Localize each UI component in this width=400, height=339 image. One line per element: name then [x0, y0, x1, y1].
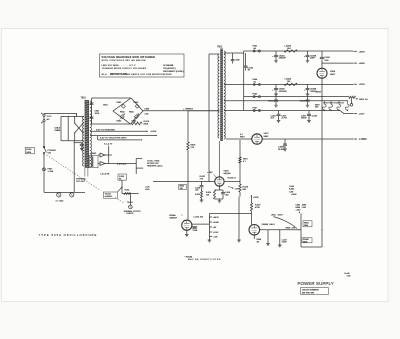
- svg-text:+17UF: +17UF: [281, 118, 288, 120]
- thermistor arrows: [120, 114, 126, 120]
- svg-text:# (2V-4V): # (2V-4V): [117, 163, 127, 165]
- input wires: [43, 112, 45, 115]
- unreg line: [143, 110, 219, 112]
- T601 primary winding: [83, 116, 84, 166]
- selector cross: [75, 123, 83, 132]
- svg-text:117V: 117V: [47, 116, 52, 118]
- svg-text:V634A: V634A: [169, 214, 176, 217]
- +500V line: [321, 63, 322, 64]
- heater fanout: [135, 159, 137, 175]
- AC input plug terminals: [43, 114, 45, 116]
- svg-text:+ 68V: + 68V: [207, 172, 213, 174]
- triad transformer box: [90, 156, 99, 168]
- T602 taps: [224, 52, 244, 54]
- svg-text:+ UNREG: + UNREG: [183, 108, 193, 110]
- unreg vertical bus: [187, 111, 189, 142]
- svg-text:4 7 UAC: 4 7 UAC: [56, 200, 64, 203]
- svg-text:WITH CONTROLS SET AS BELOW:: WITH CONTROLS SET AS BELOW:: [102, 59, 147, 62]
- L684 arc: [273, 217, 297, 229]
- pilot lamp: [129, 194, 131, 206]
- ladder top line: [209, 213, 251, 215]
- T601 secondary winding: [90, 101, 92, 167]
- svg-text:DATA: DATA: [26, 151, 31, 154]
- svg-text:6.3V TO V614 HTRS ONLY: 6.3V TO V614 HTRS ONLY: [100, 138, 127, 140]
- svg-text:560K: 560K: [303, 241, 308, 243]
- unreg to primary: [188, 110, 219, 112]
- bias line: [244, 100, 348, 102]
- C640: [245, 53, 247, 66]
- fuse F601: [43, 154, 45, 168]
- bridge connect loop: [92, 97, 132, 99]
- svg-text:5642: 5642: [330, 74, 336, 76]
- relay TK601: [103, 192, 117, 198]
- C649: [232, 53, 234, 59]
- grid out: [192, 223, 210, 225]
- cathode network: [218, 186, 220, 190]
- rail D -150V: [244, 110, 340, 112]
- x322 bus: [321, 78, 323, 139]
- svg-text:5.1-4.7V: 5.1-4.7V: [104, 143, 113, 145]
- svg-text:REG. B+: REG. B+: [359, 99, 368, 101]
- svg-text:+8.84V: +8.84V: [213, 222, 220, 224]
- svg-text:R-651: R-651: [125, 190, 130, 192]
- fuse data label box: [25, 147, 34, 153]
- C642 caps: [275, 51, 277, 55]
- svg-text:6AQ5A: 6AQ5A: [224, 172, 232, 175]
- svg-text:+34.5V: +34.5V: [213, 217, 220, 219]
- svg-text:DISCONNECT (P-P/AC): DISCONNECT (P-P/AC): [163, 70, 184, 73]
- svg-text:SEE PARTS LIST FOR MODIFICATIO: SEE PARTS LIST FOR MODIFICATIONS: [126, 73, 173, 76]
- relay switch arm: [121, 180, 123, 193]
- svg-text:V684B: V684B: [262, 224, 269, 226]
- svg-text:AT +/-: AT +/-: [102, 73, 108, 76]
- svg-text:1.25A: 1.25A: [48, 170, 54, 173]
- svg-text:CUT-OUT: CUT-OUT: [76, 181, 86, 183]
- tube cathode gnd: [186, 230, 188, 234]
- R647: [251, 199, 253, 203]
- svg-text:5-80: 5-80: [325, 60, 329, 62]
- mechanical link dashed: [47, 155, 101, 191]
- svg-text:2X40UF: 2X40UF: [279, 58, 287, 60]
- T601 lead stubs: [84, 168, 86, 177]
- T602 secondary: [224, 51, 225, 139]
- svg-text:+.84V: +.84V: [296, 210, 302, 212]
- svg-text:POWER SUPPLY: POWER SUPPLY: [298, 281, 334, 286]
- svg-text:+500V: +500V: [359, 63, 366, 65]
- svg-text:+5%: +5%: [145, 189, 149, 191]
- svg-text:4-40SEC: 4-40SEC: [105, 196, 113, 198]
- CRT heater arrows: [98, 154, 100, 156]
- svg-text:CHEK: CHEK: [55, 130, 61, 132]
- C650 / C657 filters: [278, 111, 280, 114]
- power switch SW601: [44, 148, 47, 153]
- +150 arrow: [251, 195, 253, 199]
- svg-text:L-684: L-684: [289, 186, 294, 188]
- svg-text:-150V: -150V: [359, 114, 365, 116]
- L647: [279, 230, 281, 245]
- V684B tube: [249, 225, 260, 236]
- svg-text:C645A: C645A: [268, 100, 275, 103]
- svg-text:HEATERS +(DC): HEATERS +(DC): [147, 164, 163, 167]
- svg-text:LA CH 2B: LA CH 2B: [101, 173, 110, 176]
- svg-text:TRIAD: TRIAD: [91, 152, 97, 155]
- notes box: [100, 54, 185, 77]
- svg-text:2X100UF: 2X100UF: [279, 91, 288, 93]
- svg-text:1.5M: 1.5M: [302, 207, 307, 209]
- svg-text:600 THRU 699: 600 THRU 699: [302, 292, 314, 294]
- svg-text:10-300: 10-300: [278, 149, 284, 151]
- wire to selector top: [44, 112, 77, 114]
- svg-text:T602: T602: [217, 46, 223, 48]
- V659 tube: [317, 68, 327, 78]
- svg-text:6.3V TO HEATERS: 6.3V TO HEATERS: [96, 128, 115, 131]
- svg-text:+100V: +100V: [291, 194, 297, 196]
- svg-text:1.2M: 1.2M: [289, 191, 294, 193]
- svg-text:V659: V659: [330, 71, 336, 73]
- V672 rectifier: [226, 138, 252, 140]
- fuse box right: [118, 174, 126, 180]
- svg-text:2864: 2864: [304, 225, 308, 227]
- svg-text:5642: 5642: [264, 136, 270, 138]
- C659 cap on bus: [321, 51, 323, 57]
- heater line 1: [90, 130, 148, 132]
- divider ladder: [208, 214, 210, 240]
- svg-text:F601: F601: [48, 169, 54, 171]
- rail C reg B+: [244, 96, 349, 98]
- svg-text:-1.35KV: -1.35KV: [359, 139, 368, 141]
- output line: [260, 229, 301, 231]
- svg-text:C684: C684: [296, 204, 301, 206]
- svg-text:100: 100: [287, 81, 290, 83]
- grid feedback wire: [209, 53, 219, 55]
- svg-text:100K: 100K: [95, 113, 100, 115]
- svg-text:.001: .001: [195, 190, 199, 192]
- plate out right: [224, 180, 240, 182]
- primary return: [73, 141, 75, 193]
- svg-text:T601: T601: [81, 98, 87, 100]
- svg-text:C-649: C-649: [235, 60, 240, 62]
- svg-text:VTVM: VTVM: [193, 230, 198, 232]
- plate wire to V620: [218, 141, 220, 177]
- svg-text:680K: 680K: [144, 123, 149, 125]
- svg-text:VOLTAGE READINGS MOD OBTAINED: VOLTAGE READINGS MOD OBTAINED: [102, 56, 156, 59]
- svg-text:1M: 1M: [257, 241, 260, 243]
- wire to bottom: [43, 171, 45, 193]
- svg-text:CIRCUIT NUMBERS: CIRCUIT NUMBERS: [302, 290, 320, 292]
- svg-text:6AL5: 6AL5: [270, 223, 276, 226]
- svg-text:R-685: R-685: [289, 189, 294, 191]
- rail B +225V: [244, 83, 353, 85]
- R619 resistor top: [132, 122, 143, 125]
- svg-text:LP 230 BB: LP 230 BB: [163, 65, 174, 67]
- svg-text:V620: V620: [224, 170, 230, 172]
- C665: [284, 139, 286, 144]
- svg-text:D640: D640: [145, 108, 150, 110]
- svg-text:ON: ON: [48, 153, 52, 155]
- misc gnd: [238, 197, 240, 241]
- jack 1: [57, 193, 61, 197]
- sheet: [2, 29, 389, 302]
- svg-text:V672: V672: [264, 133, 270, 135]
- svg-text:-8.15V: -8.15V: [213, 232, 219, 234]
- svg-text:.005: .005: [225, 194, 229, 196]
- jack 2: [70, 193, 74, 197]
- svg-text:6AB8/2: 6AB8/2: [170, 217, 178, 220]
- bridge rectifier diamond: [113, 98, 143, 124]
- grid line: [153, 180, 215, 182]
- x301 bus: [300, 214, 302, 248]
- svg-text:25UH: 25UH: [282, 242, 287, 244]
- boxed values: [303, 221, 312, 227]
- svg-text:LINE VOLTAGE . . . . . . 117 V: LINE VOLTAGE . . . . . . 117 V: [102, 64, 136, 67]
- svg-text:TO D1 TO D2 TO D3 TO D4: TO D1 TO D2 TO D3 TO D4: [323, 102, 344, 104]
- boxed label left: [179, 184, 186, 189]
- heater line 2: [90, 135, 157, 137]
- svg-text:+150V: +150V: [253, 197, 259, 199]
- svg-text:180UF: 180UF: [301, 118, 308, 120]
- svg-text:CTA (AC/VDC): CTA (AC/VDC): [163, 67, 176, 70]
- svg-text:TRIGGER MODE SUPPLY VOLTAGES: TRIGGER MODE SUPPLY VOLTAGES: [102, 67, 147, 70]
- svg-text:R-625: R-625: [195, 194, 200, 196]
- svg-text:TK-601: TK-601: [127, 202, 133, 204]
- svg-text:470K: 470K: [255, 207, 260, 209]
- svg-text:MAY BE SUBSTITUTED: MAY BE SUBSTITUTED: [188, 258, 221, 261]
- svg-text:R643: R643: [129, 111, 134, 113]
- svg-text:R684: R684: [296, 207, 301, 209]
- selector network: [61, 115, 84, 117]
- svg-text:LIGHTS: LIGHTS: [127, 213, 135, 215]
- svg-text:+225V *: +225V *: [316, 92, 323, 94]
- svg-text:10UH: 10UH: [278, 215, 284, 217]
- svg-text:+225V: +225V: [359, 84, 366, 86]
- svg-text:+100V: +100V: [150, 131, 157, 133]
- V634A tube: [182, 220, 192, 230]
- svg-text:TYPE 545A OSCILLOSCOPE: TYPE 545A OSCILLOSCOPE: [39, 233, 98, 237]
- R651 heater: [122, 193, 136, 195]
- svg-text:AC: AC: [47, 118, 50, 121]
- under V684: [253, 235, 255, 239]
- svg-text:* R1048: * R1048: [185, 256, 193, 258]
- bus 240: [239, 140, 241, 184]
- svg-text:C-648: C-648: [312, 115, 317, 117]
- C628 column: [201, 181, 203, 185]
- rail A +435V: [243, 51, 245, 111]
- svg-text:+435V: +435V: [359, 51, 366, 53]
- svg-text:.0068: .0068: [302, 204, 307, 206]
- V620 tube: [215, 177, 224, 186]
- svg-text:R642: R642: [120, 111, 125, 113]
- svg-text:*: *: [182, 215, 183, 218]
- T602 primary: [218, 54, 219, 138]
